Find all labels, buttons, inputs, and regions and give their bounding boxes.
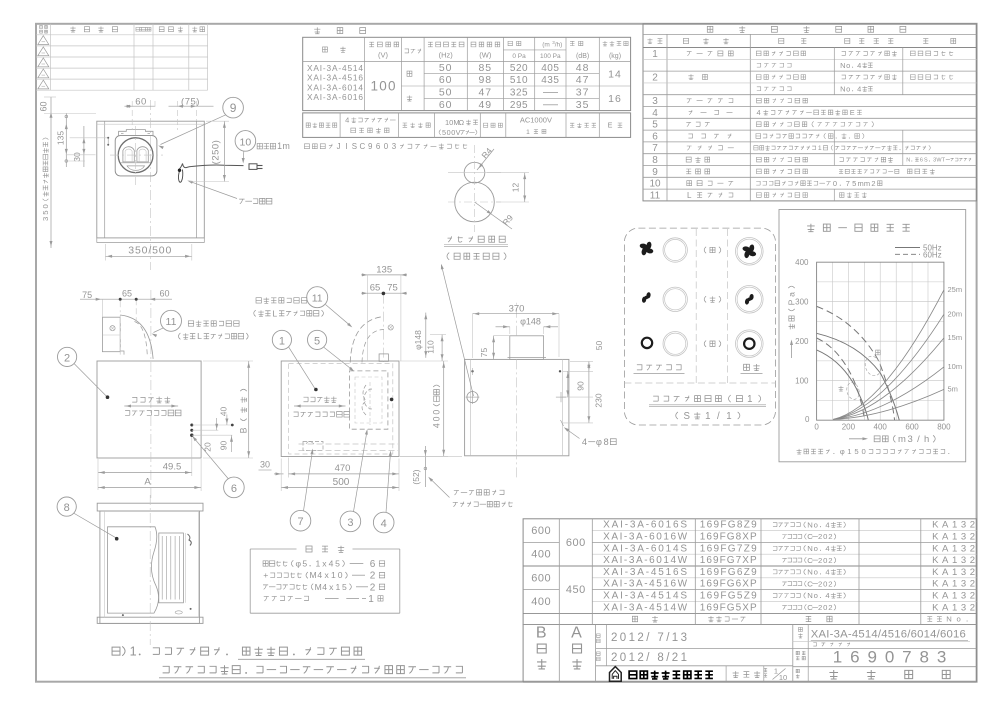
svg-text:435: 435 <box>541 75 559 86</box>
top view: power cord and plug <box>178 164 263 183</box>
svg-text:7: 7 <box>846 179 850 188</box>
svg-text:9: 9 <box>230 101 237 115</box>
graph axis labels <box>795 258 951 432</box>
svg-text:3: 3 <box>41 217 50 221</box>
svg-text:1: 1 <box>747 394 752 405</box>
switch strong painted <box>736 238 764 266</box>
svg-text:XAI-3A-6014: XAI-3A-6014 <box>307 82 363 92</box>
svg-text:600: 600 <box>905 423 919 432</box>
svg-text:100 Pa: 100 Pa <box>540 53 561 60</box>
model numbers <box>811 629 968 647</box>
top view: hood body outline <box>97 121 205 242</box>
svg-text:(Hz): (Hz) <box>439 51 454 60</box>
callouts 7 3 4 <box>290 429 394 533</box>
right view: dim 75 <box>479 336 510 360</box>
top view: dim 60 (top) <box>124 96 155 130</box>
svg-text:0: 0 <box>432 416 442 421</box>
left view: callout 11 side exhaust <box>152 310 249 341</box>
svg-text:60Hz: 60Hz <box>923 250 942 259</box>
svg-text:x: x <box>322 559 327 569</box>
JIS measurement note <box>304 144 332 149</box>
center view: callout 11 rear exhaust <box>254 287 353 328</box>
svg-text:16: 16 <box>608 93 622 105</box>
svg-text:2: 2 <box>828 532 832 541</box>
switch circle strong stainless <box>663 238 687 262</box>
svg-text:5: 5 <box>314 335 320 347</box>
svg-text:9: 9 <box>368 142 373 151</box>
svg-text:7: 7 <box>652 143 658 154</box>
svg-text:90: 90 <box>576 381 586 391</box>
svg-text:5: 5 <box>41 210 50 214</box>
accessories list <box>263 559 385 605</box>
svg-text:169FG8Z9: 169FG8Z9 <box>700 520 757 531</box>
svg-text:30: 30 <box>260 459 270 469</box>
svg-text:(52): (52) <box>411 469 421 484</box>
projection method label <box>733 671 761 677</box>
svg-text:(m: (m <box>542 42 550 49</box>
svg-text:50: 50 <box>594 341 604 351</box>
keyhole dim R4 <box>477 145 494 170</box>
svg-text:2: 2 <box>64 352 70 364</box>
svg-text:Ω: Ω <box>459 118 465 127</box>
svg-text:N: N <box>840 61 845 70</box>
product table rows <box>531 520 975 614</box>
svg-text:0: 0 <box>823 532 827 541</box>
svg-text:8: 8 <box>652 155 658 166</box>
svg-text:1: 1 <box>847 447 851 456</box>
callout 1 <box>272 330 317 391</box>
bottom view: filter grille <box>159 533 186 603</box>
top view: left vertical dims 60 and 350 <box>39 101 51 220</box>
svg-text:0: 0 <box>447 128 451 137</box>
svg-text:4: 4 <box>652 108 658 119</box>
hood bottom to filter note <box>428 477 513 507</box>
svg-text:0: 0 <box>41 204 50 208</box>
graph grid <box>817 262 944 420</box>
svg-text:3: 3 <box>652 96 658 107</box>
switch circle weak stainless <box>663 287 687 311</box>
svg-text:25m: 25m <box>948 285 963 294</box>
svg-text:1: 1 <box>705 411 710 422</box>
company name Fuji Kogyo KK <box>629 671 713 679</box>
fan curve strong 50Hz <box>817 333 900 420</box>
svg-text:4: 4 <box>825 568 830 577</box>
center view: inner dashed outline <box>289 364 393 455</box>
svg-text:520: 520 <box>510 63 528 74</box>
svg-text:1: 1 <box>279 335 285 347</box>
characteristics table header text <box>323 40 629 60</box>
svg-text:65: 65 <box>122 289 132 299</box>
svg-text:1: 1 <box>652 49 658 60</box>
svg-text:φ: φ <box>296 559 302 569</box>
svg-text:h: h <box>924 434 929 445</box>
svg-text:470: 470 <box>335 463 351 474</box>
svg-text:10: 10 <box>240 136 252 148</box>
svg-text:230: 230 <box>594 393 604 407</box>
keyhole leader line <box>441 264 474 396</box>
svg-text:XAI-3A-6016S: XAI-3A-6016S <box>603 520 687 531</box>
fan curve weak 60Hz dashed <box>817 338 865 420</box>
svg-text:75: 75 <box>82 290 92 300</box>
motor spec table <box>303 113 631 137</box>
svg-text:m: m <box>864 179 870 188</box>
left view: hood body <box>97 361 201 458</box>
svg-text:N: N <box>946 615 952 624</box>
drawing title seihin sugata zu <box>829 670 950 679</box>
svg-text:φ: φ <box>840 447 845 456</box>
keyhole labels <box>444 236 508 260</box>
svg-text:20m: 20m <box>948 309 963 318</box>
svg-text:0: 0 <box>338 570 343 580</box>
svg-text:1: 1 <box>774 667 778 676</box>
svg-text:m: m <box>283 141 290 151</box>
svg-text:φ148: φ148 <box>520 317 541 327</box>
svg-text:110: 110 <box>426 340 436 354</box>
svg-text:350/500: 350/500 <box>128 245 171 257</box>
parts list table title <box>707 26 906 32</box>
svg-text:400: 400 <box>874 423 888 432</box>
svg-text:4: 4 <box>825 591 830 600</box>
svg-text:J: J <box>337 142 341 151</box>
svg-text:o: o <box>814 544 818 553</box>
svg-text:XAI-3A-4514S: XAI-3A-4514S <box>603 591 687 602</box>
svg-text:6: 6 <box>370 559 376 570</box>
callout 8 <box>57 497 118 541</box>
center view: switch box hidden <box>299 442 399 451</box>
svg-text:4: 4 <box>381 518 387 530</box>
svg-text:49: 49 <box>478 99 492 111</box>
svg-text:(V): (V) <box>378 51 389 60</box>
earth terminal label <box>187 181 272 204</box>
svg-text:0: 0 <box>862 447 866 456</box>
svg-text:2: 2 <box>652 72 658 83</box>
svg-text:400: 400 <box>531 549 551 561</box>
svg-text:10m: 10m <box>948 362 963 371</box>
svg-text:4: 4 <box>322 582 327 592</box>
svg-text:800: 800 <box>937 423 951 432</box>
svg-text:XAI-3A-6016W: XAI-3A-6016W <box>603 532 688 543</box>
svg-text:65: 65 <box>370 282 381 293</box>
svg-text:6: 6 <box>376 142 381 151</box>
title block grid <box>523 625 977 683</box>
svg-text:M: M <box>315 582 322 592</box>
svg-text:2012/ 8/21: 2012/ 8/21 <box>611 652 687 664</box>
label (weak) <box>704 296 721 302</box>
center view: dim phi148 vertical <box>413 313 427 358</box>
svg-text:370: 370 <box>509 304 525 315</box>
svg-text:0: 0 <box>805 415 810 424</box>
svg-text:169FG5XP: 169FG5XP <box>700 602 757 613</box>
center view: rear duct curve <box>350 317 393 363</box>
svg-text:XAI-3A-6014S: XAI-3A-6014S <box>603 543 687 554</box>
svg-text:2: 2 <box>828 556 832 565</box>
callout 2 <box>58 347 110 399</box>
svg-text:(kg): (kg) <box>609 53 621 60</box>
svg-text:(250): (250) <box>211 140 222 165</box>
right view: 4-phi8 hole label <box>564 427 616 447</box>
svg-text:2: 2 <box>818 532 822 541</box>
svg-text:11: 11 <box>166 316 177 328</box>
svg-text:169FG6XP: 169FG6XP <box>700 579 757 590</box>
switch panel inner dividers <box>624 229 775 383</box>
center view: line direction label <box>294 396 350 417</box>
svg-text:I: I <box>345 142 347 151</box>
bottom view: latch <box>188 534 192 546</box>
svg-text:3: 3 <box>347 517 353 529</box>
center view: dim (52) vertical <box>400 446 462 487</box>
center view: fan unit hidden outline <box>349 371 393 429</box>
center view: dim 135 <box>361 265 407 361</box>
svg-text:E: E <box>608 122 613 130</box>
svg-text:XAI-3A-4514: XAI-3A-4514 <box>307 63 363 73</box>
svg-text:/h): /h) <box>555 42 563 49</box>
svg-text:10M: 10M <box>445 118 460 127</box>
bottom view: center line <box>149 495 151 645</box>
keyhole dim R9 <box>475 202 516 229</box>
svg-text:14: 14 <box>608 69 622 81</box>
callout 10 and cord length label <box>235 131 290 164</box>
svg-text:x: x <box>329 582 334 592</box>
svg-text:60: 60 <box>39 101 49 111</box>
callout 5 <box>308 330 355 371</box>
svg-text:60: 60 <box>135 96 147 107</box>
keyhole dim 12 <box>487 173 529 202</box>
svg-text:4: 4 <box>582 437 587 447</box>
svg-text:4: 4 <box>825 544 830 553</box>
svg-text:m: m <box>898 434 906 445</box>
svg-text:1: 1 <box>316 559 321 569</box>
svg-text:φ148: φ148 <box>413 330 423 350</box>
svg-text:12: 12 <box>511 183 521 193</box>
svg-text:o: o <box>814 591 818 600</box>
left view: top dims 75 65 60 <box>80 289 172 318</box>
svg-text:450: 450 <box>566 584 586 596</box>
svg-text:600: 600 <box>531 525 551 537</box>
note 1 switch spec <box>112 645 365 660</box>
svg-text:500: 500 <box>333 477 350 488</box>
svg-text:N: N <box>807 568 813 577</box>
svg-text:7: 7 <box>297 516 303 528</box>
svg-text:48: 48 <box>576 62 590 74</box>
svg-text:XAI-3A-4516W: XAI-3A-4516W <box>603 579 688 590</box>
created / updated dates <box>597 632 687 664</box>
characteristics table title <box>314 27 365 33</box>
svg-text:10: 10 <box>649 179 661 190</box>
svg-text:1: 1 <box>818 145 822 152</box>
right view: duct collar <box>508 300 547 480</box>
switch off painted <box>736 330 764 358</box>
svg-text:2012/ 7/13: 2012/ 7/13 <box>611 632 687 644</box>
left view: line direction label <box>124 397 181 416</box>
svg-text:0 Pa: 0 Pa <box>512 53 526 60</box>
svg-text:9: 9 <box>652 167 658 178</box>
svg-text:M: M <box>310 570 317 580</box>
switch detail panel frame <box>624 228 775 425</box>
svg-text:4: 4 <box>329 559 334 569</box>
svg-text:1: 1 <box>526 129 530 136</box>
svg-text:75: 75 <box>479 348 489 358</box>
svg-text:m: m <box>857 179 863 188</box>
switch weak painted <box>736 286 764 314</box>
svg-text:98: 98 <box>478 74 492 86</box>
svg-text:4: 4 <box>825 520 830 529</box>
svg-text:37: 37 <box>576 87 590 99</box>
svg-text:169FG7Z9: 169FG7Z9 <box>700 543 757 554</box>
top view: dims 135 and 30 left side <box>56 113 110 167</box>
svg-text:2: 2 <box>828 579 832 588</box>
svg-text:4: 4 <box>317 570 322 580</box>
svg-text:11: 11 <box>312 293 323 305</box>
svg-text:A: A <box>571 625 582 642</box>
svg-text:2: 2 <box>818 556 822 565</box>
svg-text:5: 5 <box>342 582 347 592</box>
svg-text:0: 0 <box>432 410 442 415</box>
svg-text:2: 2 <box>370 571 376 582</box>
product table header row <box>632 615 967 624</box>
svg-text:6: 6 <box>920 158 923 164</box>
fan curve weak 50Hz <box>817 350 869 420</box>
svg-text:0: 0 <box>384 142 389 151</box>
svg-text:L: L <box>272 308 277 318</box>
company logo <box>610 667 622 682</box>
svg-text:XAI-3A-6016: XAI-3A-6016 <box>307 92 363 102</box>
svg-text:N: N <box>807 520 813 529</box>
svg-text:φ: φ <box>596 437 602 447</box>
svg-text:XAI-3A-6014W: XAI-3A-6014W <box>603 555 688 566</box>
center view: hood body <box>281 361 399 457</box>
svg-text:169FG6Z9: 169FG6Z9 <box>700 567 757 578</box>
svg-text:1: 1 <box>331 570 336 580</box>
svg-text:5: 5 <box>442 128 446 137</box>
svg-text:4: 4 <box>432 423 442 428</box>
parts list table grid <box>643 24 977 201</box>
svg-text:400: 400 <box>795 258 809 267</box>
svg-text:405: 405 <box>541 63 559 74</box>
scale 1/10 <box>764 667 788 682</box>
svg-text:XAI-3A-4516S: XAI-3A-4516S <box>603 567 687 578</box>
B dims A dims labels <box>536 625 582 669</box>
svg-text:B: B <box>536 625 547 642</box>
center view: dim 400 (body) vertical <box>400 361 448 457</box>
svg-text:E: E <box>850 108 855 117</box>
fan curve strong 60Hz dashed <box>817 306 895 420</box>
center view: center line <box>382 294 384 362</box>
svg-text:4: 4 <box>857 84 861 93</box>
svg-text:P: P <box>787 299 797 305</box>
svg-text:B: B <box>239 427 249 433</box>
svg-text:50: 50 <box>439 87 453 99</box>
svg-text:47: 47 <box>576 74 590 86</box>
center view: dim 30 470 500 <box>259 458 400 492</box>
label (strong) <box>704 247 721 253</box>
svg-text:200: 200 <box>795 337 809 346</box>
svg-text:L: L <box>197 331 202 341</box>
right view: mounting holes <box>466 368 566 426</box>
x axis title flow rate <box>849 434 935 445</box>
svg-text:1: 1 <box>130 645 137 659</box>
svg-text:169FG8XP: 169FG8XP <box>700 532 757 543</box>
svg-text:AC1000V: AC1000V <box>520 116 552 125</box>
left view: screw dots and dims 40 20 90 <box>190 407 234 452</box>
svg-text:N: N <box>807 544 813 553</box>
accessories box <box>250 546 400 614</box>
left view: center line <box>150 290 152 500</box>
svg-text:S: S <box>352 142 357 151</box>
duct resistance curves <box>833 285 962 420</box>
svg-text:S: S <box>924 158 928 164</box>
left view: callout 6 <box>192 436 244 498</box>
svg-text:5: 5 <box>854 447 858 456</box>
top view: center line <box>150 100 152 270</box>
svg-text:47: 47 <box>478 87 492 99</box>
left view: dim 49.5 and A <box>98 437 201 491</box>
characteristics table grid <box>303 37 631 110</box>
right view: body <box>465 359 569 455</box>
characteristics table data <box>307 62 622 111</box>
svg-text:S: S <box>683 411 689 422</box>
revision history table <box>36 24 208 90</box>
parts list header <box>647 38 955 44</box>
svg-text:135: 135 <box>376 265 392 276</box>
fan icon strong (stainless) <box>639 241 653 255</box>
svg-text:V: V <box>456 128 461 137</box>
svg-text:1: 1 <box>726 411 731 422</box>
svg-text:C: C <box>359 142 365 151</box>
svg-text:90: 90 <box>219 441 229 451</box>
svg-text:(W): (W) <box>479 51 492 60</box>
curve labels strong weak <box>838 350 883 401</box>
top view: dim 350/500 bottom <box>105 244 191 261</box>
svg-text:600: 600 <box>566 537 586 549</box>
bottom view: small handle hole <box>175 611 182 614</box>
label (off) <box>704 341 721 347</box>
center view: dim 110 vertical <box>426 335 447 362</box>
graph box <box>779 210 966 462</box>
svg-text:75: 75 <box>387 282 398 293</box>
svg-text:2: 2 <box>818 579 822 588</box>
switch circle off stainless <box>663 332 687 356</box>
svg-text:0: 0 <box>823 556 827 565</box>
svg-text:400: 400 <box>531 596 551 608</box>
svg-text:5: 5 <box>852 179 856 188</box>
svg-text:5m: 5m <box>948 384 958 393</box>
fan icon weak (stainless) <box>642 292 652 303</box>
top view: fan motor unit <box>110 126 163 185</box>
svg-text:4: 4 <box>757 108 761 117</box>
svg-text:1: 1 <box>277 141 282 151</box>
left view: side duct chimney <box>102 299 153 359</box>
svg-text:2: 2 <box>370 582 376 593</box>
svg-text:N: N <box>807 591 813 600</box>
svg-text:6: 6 <box>231 483 237 495</box>
svg-text:3: 3 <box>392 142 397 151</box>
svg-text:XAI-3A-4516: XAI-3A-4516 <box>307 73 363 83</box>
svg-text:11: 11 <box>650 190 661 201</box>
svg-text:5: 5 <box>302 559 307 569</box>
svg-text:200: 200 <box>842 423 856 432</box>
svg-text:169FG7XP: 169FG7XP <box>700 555 757 566</box>
graph note <box>797 449 835 454</box>
svg-text:o: o <box>956 615 960 624</box>
svg-text:0: 0 <box>814 423 819 432</box>
svg-text:XAI-3A-4514W: XAI-3A-4514W <box>603 602 688 613</box>
svg-text:L: L <box>687 191 692 200</box>
y axis title static pressure <box>787 286 797 358</box>
svg-text:85: 85 <box>478 62 492 74</box>
switch detail caption <box>649 394 766 422</box>
stainless / painted labels <box>634 364 763 373</box>
svg-text:x: x <box>324 570 329 580</box>
